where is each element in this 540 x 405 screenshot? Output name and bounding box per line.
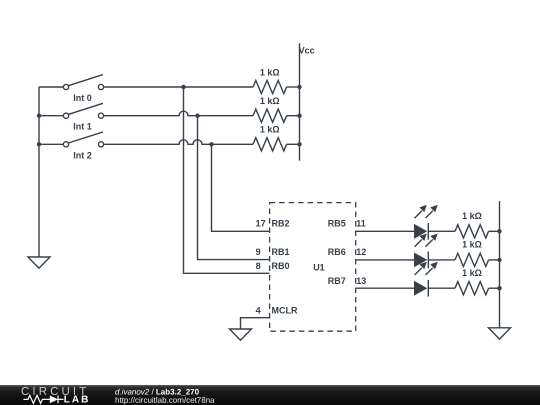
svg-text:MCLR: MCLR <box>272 305 298 315</box>
svg-text:RB5: RB5 <box>328 219 346 229</box>
svg-text:17: 17 <box>256 219 266 229</box>
junction row1 col1 <box>181 85 185 89</box>
junction Vcc row1 <box>297 85 301 89</box>
svg-text:4: 4 <box>256 305 261 315</box>
svg-text:RB1: RB1 <box>272 247 290 257</box>
svg-text:U1: U1 <box>313 262 325 272</box>
junction right rail row2 <box>497 258 501 262</box>
svg-text:Int 2: Int 2 <box>73 150 92 160</box>
wire left rail vertical <box>38 87 40 257</box>
svg-text:1 kΩ: 1 kΩ <box>462 239 482 249</box>
wire RB5 to LED1 <box>356 230 414 232</box>
svg-text:1 kΩ: 1 kΩ <box>260 67 280 77</box>
switch Int 2 <box>63 132 103 147</box>
wire row2 switch to resistor (hop over col1) <box>104 111 253 116</box>
svg-text:RB2: RB2 <box>272 219 290 229</box>
junction right rail row1 <box>497 229 501 233</box>
svg-text:1 kΩ: 1 kΩ <box>462 268 482 278</box>
svg-text:1 kΩ: 1 kΩ <box>260 96 280 106</box>
wire row3 rail to switch <box>39 143 63 145</box>
svg-text:Int 1: Int 1 <box>73 122 92 132</box>
IC U1 dashed outline <box>270 203 356 332</box>
svg-text:RB0: RB0 <box>272 261 290 271</box>
ground (right rail) <box>489 328 511 339</box>
wire row1 switch to resistor <box>104 86 253 88</box>
LED D3 <box>414 262 438 297</box>
resistor 1 kOhm row1 <box>253 80 287 93</box>
resistor 1 kOhm LED3 <box>455 282 489 295</box>
wire col3 down to RB2 <box>212 144 270 231</box>
LED D1 <box>414 205 438 240</box>
junction row2 col2 <box>195 114 199 118</box>
svg-text:12: 12 <box>356 247 366 257</box>
junction left rail row3 <box>37 142 41 146</box>
resistor 1 kOhm LED2 <box>455 253 489 266</box>
ground (left rail) <box>28 257 50 268</box>
svg-text:8: 8 <box>256 261 261 271</box>
wire row2 resistor to Vcc rail <box>287 115 300 117</box>
svg-text:1 kΩ: 1 kΩ <box>260 125 280 135</box>
junction right rail row3 <box>497 286 501 290</box>
wire MCLR to ground <box>241 318 270 329</box>
wire row3 resistor to Vcc rail <box>287 143 300 145</box>
CircuitLab logo squiggle <box>23 395 63 403</box>
resistor 1 kOhm row3 <box>253 138 287 151</box>
right rail vertical <box>499 201 501 328</box>
wire resistor to right rail row1 <box>489 230 500 232</box>
switch Int 1 <box>63 103 103 118</box>
svg-text:11: 11 <box>356 219 366 229</box>
wire resistor to right rail row3 <box>489 287 500 289</box>
wire row3 switch to resistor (hops over col1 col2) <box>104 140 253 144</box>
wire RB7 to LED3 <box>356 287 414 289</box>
ground (MCLR) <box>230 329 252 340</box>
wire LED1 to resistor <box>428 230 455 232</box>
Vcc rail <box>299 43 301 160</box>
svg-text:9: 9 <box>256 247 261 257</box>
switch Int 0 <box>63 75 103 90</box>
svg-text:1 kΩ: 1 kΩ <box>462 211 482 221</box>
junction left rail row2 <box>37 114 41 118</box>
svg-text:http://circuitlab.com/cet78na: http://circuitlab.com/cet78na <box>115 396 215 405</box>
svg-text:Int 0: Int 0 <box>73 93 92 103</box>
wire row1 rail to switch <box>39 86 63 88</box>
wire row2 rail to switch <box>39 115 63 117</box>
svg-text:RB6: RB6 <box>328 247 346 257</box>
wire LED2 to resistor <box>428 259 455 261</box>
junction Vcc row2 <box>297 114 301 118</box>
junction row3 col3 <box>209 142 213 146</box>
wire col2 down to RB1 <box>198 116 270 260</box>
wire col1 down to RB0 <box>184 87 270 273</box>
wire resistor to right rail row2 <box>489 259 500 261</box>
footer bar <box>0 385 540 405</box>
wire LED3 to resistor <box>428 287 455 289</box>
svg-text:13: 13 <box>356 276 366 286</box>
svg-text:RB7: RB7 <box>328 276 346 286</box>
svg-text:Vcc: Vcc <box>299 46 315 56</box>
wire RB6 to LED2 <box>356 259 414 261</box>
wire row1 resistor to Vcc rail <box>287 86 300 88</box>
svg-text:LAB: LAB <box>64 394 91 405</box>
resistor 1 kOhm row2 <box>253 109 287 122</box>
resistor 1 kOhm LED1 <box>455 225 489 238</box>
junction Vcc row3 <box>297 142 301 146</box>
LED D2 <box>414 234 438 269</box>
